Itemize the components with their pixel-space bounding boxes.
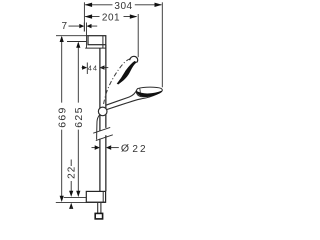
hose line below holder bbox=[97, 115, 100, 139]
dim 7 right arrow bbox=[87, 24, 92, 28]
phantom head curl bbox=[130, 56, 138, 62]
dim 201 right arrow bbox=[130, 14, 138, 18]
dim diameter 22 left tail bbox=[92, 147, 96, 149]
svg-text:22: 22 bbox=[132, 144, 147, 155]
bar right edge bbox=[105, 45, 107, 192]
svg-text:304: 304 bbox=[114, 1, 132, 12]
bottom bracket bottom edge thick bbox=[86, 201, 105, 203]
bar left edge bbox=[99, 48, 101, 191]
top bracket body bbox=[88, 36, 106, 45]
dim 625 line bbox=[77, 43, 79, 195]
dim 44 left arrow bbox=[82, 65, 87, 69]
dim diameter 22 leader line bbox=[110, 147, 119, 149]
dim 44 extension line bbox=[86, 63, 88, 75]
dim 22 bottom tail bbox=[70, 207, 72, 209]
dim 625 top arrow bbox=[76, 42, 80, 48]
dim 669 line bbox=[61, 37, 63, 200]
dim 669 top arrow bbox=[60, 36, 64, 42]
head bottom outline bbox=[142, 91, 162, 98]
phantom head black crescent bbox=[118, 62, 136, 84]
dim 304 right extension line bbox=[161, 2, 163, 87]
dim 669 bottom extension line bbox=[56, 201, 87, 203]
svg-text:Ø: Ø bbox=[121, 143, 129, 155]
top bracket flange line bbox=[85, 47, 106, 49]
svg-text:22: 22 bbox=[66, 166, 77, 179]
dim 201 left arrow bbox=[85, 14, 93, 18]
dim 201 line bbox=[85, 16, 136, 18]
svg-text:625: 625 bbox=[73, 106, 85, 127]
dim diameter 22 left arrow bbox=[95, 145, 100, 150]
handle bottom edge bbox=[107, 99, 142, 110]
bottom bracket inner line bbox=[102, 191, 104, 202]
bar break mark bbox=[93, 127, 113, 140]
dim 304 right arrow bbox=[155, 3, 163, 7]
dim 625 top extension line bbox=[67, 41, 86, 43]
holder circle bbox=[98, 107, 107, 116]
phantom hose dash-dot curve bbox=[104, 59, 130, 104]
dim 669 bottom arrow bbox=[60, 196, 64, 202]
head neck joint line bbox=[139, 88, 142, 96]
dim 44 right arrow bbox=[100, 65, 105, 69]
wall stub line bbox=[83, 23, 85, 32]
dim 304 left extension line bbox=[83, 2, 85, 31]
dim 625 bottom arrow bbox=[76, 191, 80, 197]
dim 44 leader line bbox=[100, 67, 109, 69]
dim 625 bottom extension line bbox=[64, 197, 87, 199]
dim 669 top extension line bbox=[56, 35, 88, 37]
end cap bbox=[95, 213, 102, 219]
bottom bracket body bbox=[86, 191, 105, 202]
svg-text:44: 44 bbox=[88, 63, 98, 72]
bracket rear face line bbox=[86, 23, 88, 49]
dim 201 right extension line bbox=[137, 14, 139, 57]
dim diameter 22 right arrow bbox=[106, 145, 111, 150]
top bracket inner line bbox=[102, 36, 104, 48]
dim 22 line bbox=[70, 160, 72, 193]
dim 304 line bbox=[85, 4, 161, 6]
handle top edge bbox=[106, 89, 138, 105]
head black crescent bbox=[136, 91, 161, 96]
svg-text:201: 201 bbox=[102, 12, 120, 23]
dim 44 left tail bbox=[82, 67, 84, 69]
svg-text:7: 7 bbox=[62, 21, 68, 32]
head white body bbox=[136, 87, 162, 97]
bottom rod right edge bbox=[100, 203, 102, 213]
dim 7 left arrow bbox=[79, 24, 84, 28]
dim 22 bottom arrow bbox=[69, 203, 73, 209]
dim 22 top arrow bbox=[69, 191, 73, 197]
dim 304 left arrow bbox=[85, 3, 93, 7]
svg-text:669: 669 bbox=[57, 106, 69, 127]
dim 7 line bbox=[69, 25, 98, 27]
bottom rod left edge bbox=[97, 203, 99, 213]
